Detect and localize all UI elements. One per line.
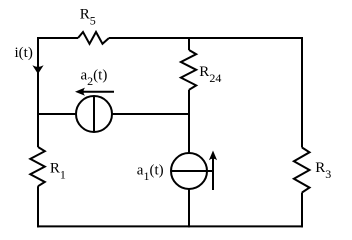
wire: bottom wire [37,225,303,227]
wire: top segment R5 to top-right corner [109,37,303,39]
svg-text:R5: R5 [80,7,96,28]
arrowhead a2(t) pointing left [75,88,85,96]
wire: top-left segment (node A to R5) [38,37,78,39]
resistor R24 [181,50,196,90]
arrow shaft for a1(t) [212,158,214,190]
wire: left wire lower [37,186,39,227]
svg-text:a2(t): a2(t) [81,68,108,89]
wire: middle branch a1 to bottom [188,189,190,227]
arrowhead i(t) on left wire [32,65,43,74]
svg-text:R24: R24 [199,64,221,85]
wire: middle branch R24 to a1 [188,90,190,153]
resistor R5 [78,32,109,44]
resistor R1 [30,147,45,186]
svg-text:R3: R3 [315,160,331,181]
svg-text:a1(t): a1(t) [137,163,164,184]
svg-text:R1: R1 [50,160,66,181]
wire: left wire upper (carries i(t)) [37,37,39,147]
current source a2 (circle with bar) [76,96,112,132]
wire: middle branch top stub [188,37,190,50]
wire: a2 branch left (left wire to a2) [38,113,77,115]
arrow shaft for a2(t) [83,91,114,93]
resistor R3 [294,148,310,193]
svg-text:i(t): i(t) [15,45,33,61]
wire: right wire upper [301,37,303,148]
wire: right wire lower [301,193,303,228]
arrowhead a1(t) pointing up [209,151,217,161]
wire: a2 branch right (a2 to middle node) [112,113,191,115]
current source a1 (circle with bar) [171,153,207,189]
